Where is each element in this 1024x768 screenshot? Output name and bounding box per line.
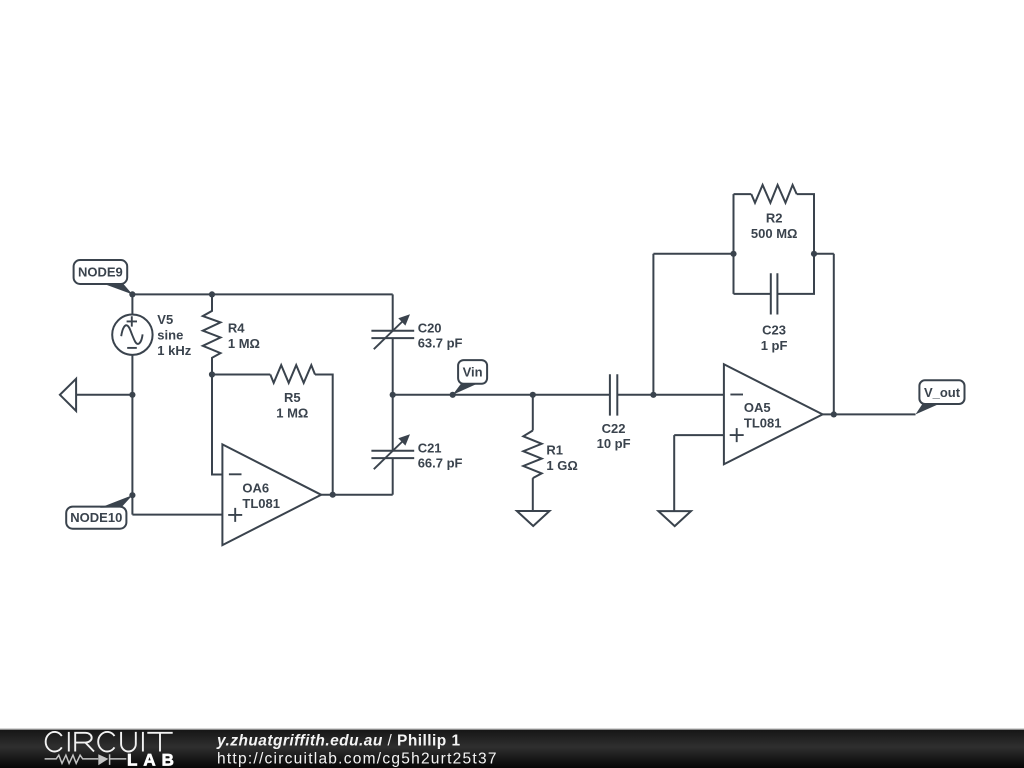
svg-text:NODE9: NODE9	[78, 265, 123, 280]
svg-text:10 pF: 10 pF	[597, 436, 631, 451]
svg-text:sine: sine	[157, 328, 183, 343]
svg-text:R4: R4	[228, 321, 245, 336]
svg-text:Vin: Vin	[463, 365, 483, 380]
capacitor C20 plates (variable)	[371, 331, 414, 338]
svg-text:C20: C20	[418, 320, 442, 335]
svg-text:NODE10: NODE10	[70, 510, 122, 525]
junction dot R1 tee	[530, 392, 536, 398]
wire feedback riser	[652, 254, 654, 395]
svg-text:R5: R5	[284, 390, 301, 405]
wire top horizontal net NODE9	[132, 293, 392, 295]
wire to OA6 minus input	[212, 375, 222, 475]
svg-text:R2: R2	[766, 211, 783, 226]
op-amp OA6 triangle	[222, 444, 321, 545]
wire loop left up to R2	[733, 194, 735, 254]
svg-text:C21: C21	[418, 440, 442, 455]
svg-text:y.zhuatgriffith.edu.au / Phill: y.zhuatgriffith.edu.au / Phillip 1	[216, 732, 461, 749]
OA5 minus sign	[730, 394, 743, 396]
wire C20 top stub	[392, 294, 394, 330]
wire R1 bottom to ground	[532, 478, 534, 511]
svg-text:TL081: TL081	[242, 496, 280, 511]
resistor R1 (vertical)	[523, 431, 541, 479]
svg-text:1 MΩ: 1 MΩ	[276, 405, 308, 420]
junction dot R4 bottom tee	[209, 371, 215, 377]
resistor R4 (vertical)	[203, 294, 221, 374]
junction dot NODE9 attach	[129, 291, 135, 297]
V5 plus sign	[127, 316, 137, 326]
wire OA5 output to V_out	[823, 413, 916, 415]
wire loop left down to C23	[733, 254, 735, 294]
wire C22 to OA5 minus input	[617, 394, 724, 396]
wire R1 top stub	[532, 395, 534, 431]
ground symbol (R1)	[517, 511, 550, 526]
wire V5 top stub	[131, 294, 133, 314]
wire Vin horizontal net	[393, 394, 610, 396]
footer bar	[0, 729, 1024, 730]
junction dot loop right	[811, 251, 817, 257]
svg-text:V5: V5	[157, 312, 173, 327]
wire C20 bottom to Vin net	[392, 338, 394, 395]
resistor R2 (horizontal)	[751, 185, 796, 203]
svg-text:R1: R1	[546, 443, 563, 458]
V5 sine symbol	[121, 325, 142, 344]
wire OA5 minus stub	[674, 434, 724, 436]
svg-text:63.7 pF: 63.7 pF	[418, 336, 463, 351]
C20 variable arrow	[374, 321, 404, 350]
svg-text:1 pF: 1 pF	[761, 338, 788, 353]
junction dot OA6 output tee	[330, 492, 336, 498]
ground symbol (OA5)	[658, 511, 691, 526]
svg-text:1 kHz: 1 kHz	[157, 343, 191, 358]
OA6 plus sign	[228, 508, 242, 522]
junction dot R4 top	[209, 291, 215, 297]
wire OA5 plus to ground	[673, 435, 675, 511]
resistor R5 (horizontal)	[270, 365, 315, 383]
wire R5 right feedback down	[315, 375, 333, 495]
wire C21 bottom stub	[392, 458, 394, 495]
svg-text:LAB: LAB	[127, 750, 180, 768]
svg-text:66.7 pF: 66.7 pF	[418, 456, 463, 471]
wire OA6 output	[321, 494, 393, 496]
wire R2 left stub	[734, 193, 752, 195]
net flag Vin box	[458, 360, 487, 384]
voltage source V5 circle	[112, 315, 152, 355]
junction dot Vin flag attach	[450, 392, 456, 398]
wire C23 left stub	[734, 293, 771, 295]
wire riser to loop left	[653, 253, 733, 255]
svg-text:C22: C22	[602, 421, 626, 436]
wire loop right to output riser	[814, 253, 834, 255]
svg-text:OA6: OA6	[242, 481, 269, 496]
capacitor C21 plates (variable)	[371, 451, 414, 458]
junction dot NODE10 attach	[129, 492, 135, 498]
wire R2 right stub down	[797, 194, 814, 254]
port arrow symbol (left input)	[60, 379, 76, 411]
svg-text:http://circuitlab.com/cg5h2urt: http://circuitlab.com/cg5h2urt25t37	[217, 750, 498, 767]
svg-text:TL081: TL081	[744, 416, 782, 431]
net flag V_out box	[919, 380, 964, 404]
svg-text:C23: C23	[762, 323, 786, 338]
net flag NODE9 box	[74, 260, 128, 284]
svg-text:1 GΩ: 1 GΩ	[546, 458, 577, 473]
wire NODE10 corner to OA6 plus input	[132, 514, 222, 516]
junction dot loop left	[730, 251, 736, 257]
junction dot C22 feedback tee	[650, 392, 656, 398]
CircuitLab logo wordmark CIRCUIT (thin geometric strokes)	[46, 732, 173, 752]
svg-text:500 MΩ: 500 MΩ	[751, 226, 798, 241]
svg-text:OA5: OA5	[744, 400, 771, 415]
C21 variable arrow	[374, 441, 404, 470]
wire port arrow to V5 net	[76, 394, 132, 396]
wire Vin net to C21 top	[392, 395, 394, 451]
wire V5 bottom to NODE10 corner	[131, 355, 133, 515]
capacitor C23 plates	[771, 273, 778, 314]
wire C23 right stub up	[777, 254, 814, 294]
junction dot OA5 output tee	[831, 411, 837, 417]
CircuitLab logo resistor-diode glyph	[45, 754, 127, 765]
V5 minus sign	[127, 347, 137, 349]
OA5 plus sign	[730, 428, 744, 442]
junction dot port tee	[129, 392, 135, 398]
wire R4 bottom to R5	[212, 374, 270, 376]
capacitor C22 plates	[610, 374, 617, 415]
junction dot Vin corner	[390, 392, 396, 398]
op-amp OA5 triangle	[724, 364, 823, 464]
wire output riser down	[833, 254, 835, 415]
svg-text:V_out: V_out	[924, 385, 961, 400]
svg-text:1 MΩ: 1 MΩ	[228, 336, 260, 351]
net flag NODE10 box	[66, 507, 126, 529]
OA6 minus sign	[229, 473, 242, 475]
